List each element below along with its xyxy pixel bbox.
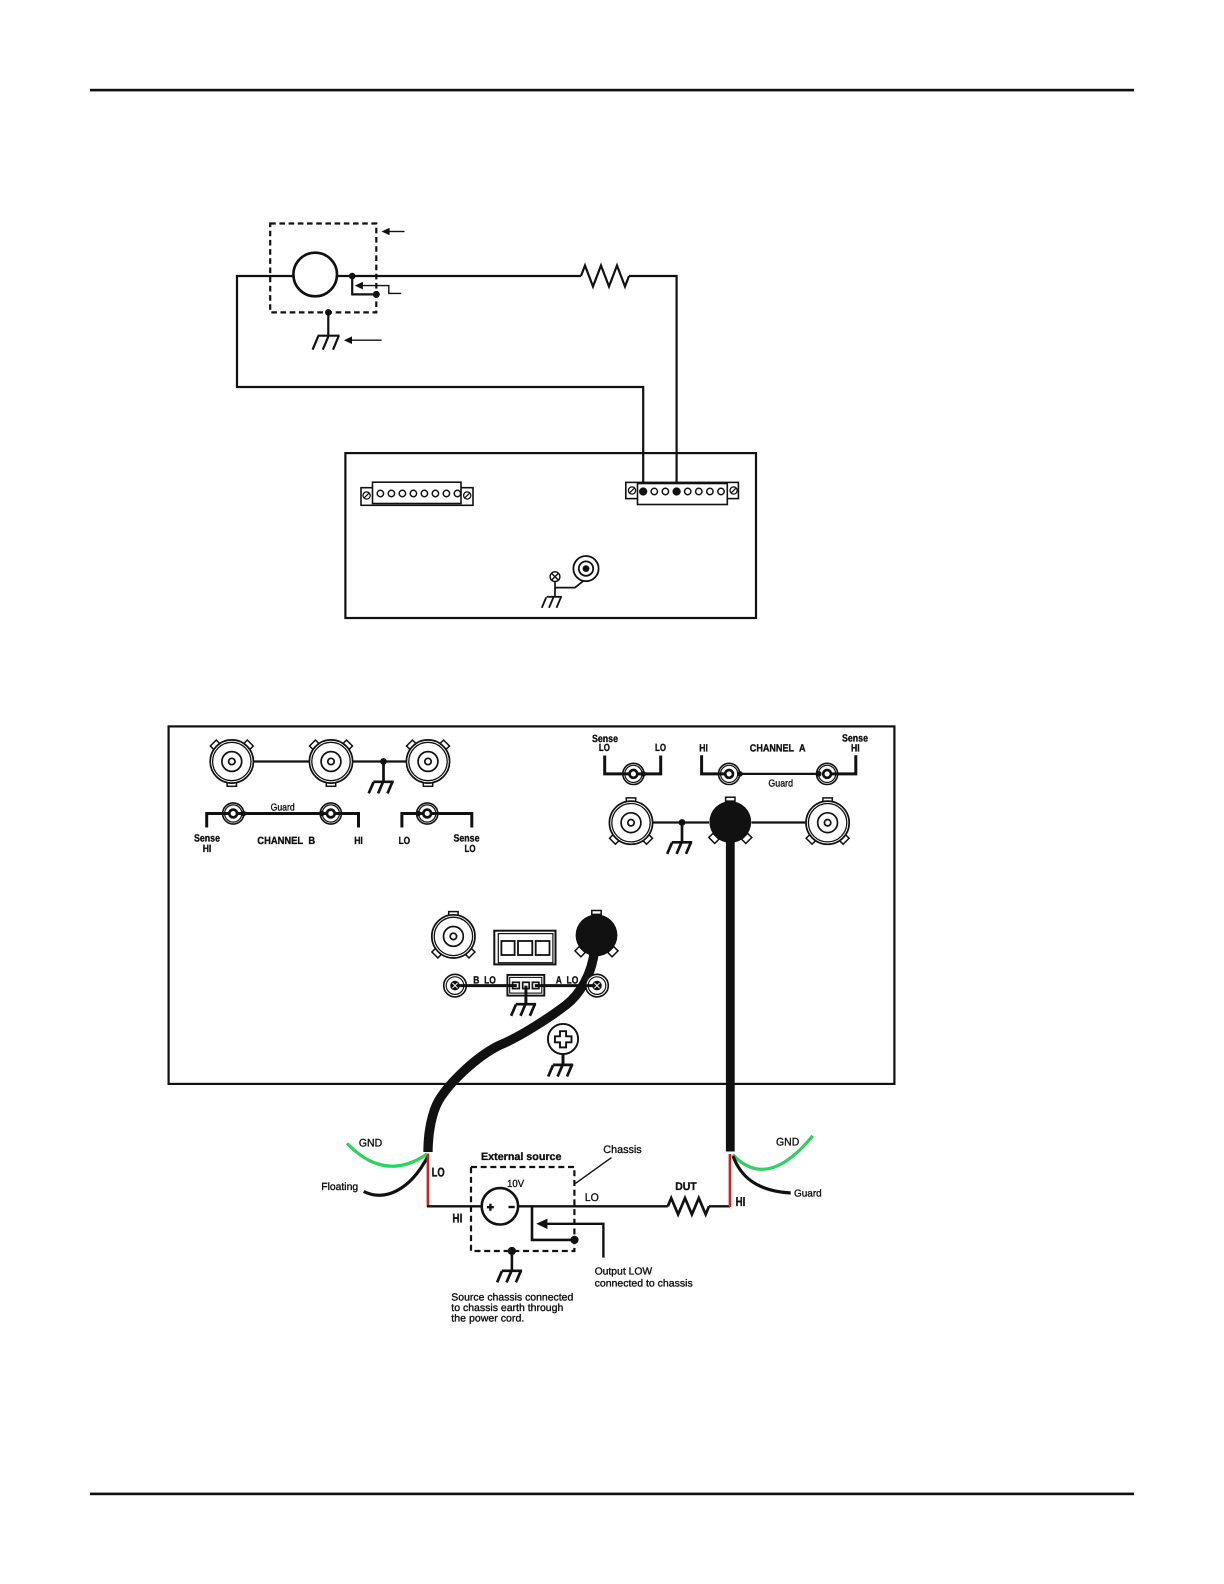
BNC B bus bar 2 xyxy=(309,740,352,786)
black BNC with cable (channel A) xyxy=(709,797,752,843)
chassis screw + xyxy=(548,1024,578,1054)
stub Sense LO xyxy=(427,814,472,828)
3-pin terminal block xyxy=(507,975,544,996)
BNC A out left xyxy=(609,798,652,844)
node guard bus left xyxy=(241,811,247,817)
svg-text:HI: HI xyxy=(354,836,363,847)
chassis screw with X xyxy=(550,572,560,582)
output low callout arrow xyxy=(536,1219,603,1258)
red HI link xyxy=(729,1154,732,1207)
BNC sense LO center xyxy=(630,770,638,778)
svg-text:LO: LO xyxy=(599,743,610,754)
3-slot connector block xyxy=(494,931,555,965)
svg-text:the power cord.: the power cord. xyxy=(451,1313,524,1324)
wire resistor to panel xyxy=(629,276,677,489)
wire B LO into block xyxy=(455,984,517,987)
svg-text:LO: LO xyxy=(432,1164,445,1179)
black BNC with cable (output) xyxy=(575,911,618,957)
jack B LO center xyxy=(451,982,459,990)
jack A LO (rings) xyxy=(586,974,609,997)
node: guard on shield xyxy=(373,291,380,298)
jack B LO (rings) xyxy=(444,974,467,997)
node on B bus xyxy=(380,758,387,765)
terminal block left: body xyxy=(373,482,462,503)
BNC middle group xyxy=(432,912,475,958)
svg-text:External source: External source xyxy=(481,1151,562,1163)
node LO left xyxy=(416,811,422,817)
node output low on chassis xyxy=(570,1236,578,1244)
green GND curve right xyxy=(733,1136,813,1170)
terminal block right: end screws xyxy=(628,487,737,494)
svg-text:connected to chassis: connected to chassis xyxy=(595,1278,693,1289)
terminal block left: holes xyxy=(377,490,460,496)
svg-text:Sense: Sense xyxy=(194,834,220,845)
node guard A left xyxy=(737,771,743,777)
svg-text:GND: GND xyxy=(776,1137,799,1149)
terminal block right: body xyxy=(638,484,728,505)
wire DUT to HI xyxy=(709,1205,730,1207)
stub Sense HI xyxy=(207,814,234,828)
node A out xyxy=(679,819,686,826)
callout arrow to guard wire (jogged leader) xyxy=(355,282,401,294)
resistor xyxy=(581,266,629,287)
DUT resistor xyxy=(668,1198,709,1214)
svg-text:LO: LO xyxy=(465,844,476,855)
BNC B bus bar 1 xyxy=(210,740,253,786)
header rule xyxy=(90,89,1134,92)
svg-text:GND: GND xyxy=(359,1138,382,1150)
svg-text:Guard: Guard xyxy=(271,803,295,814)
voltage source circle xyxy=(293,253,337,297)
wire screw to ground xyxy=(562,1054,565,1065)
callout arrow to ground xyxy=(344,336,382,344)
minus symbol xyxy=(509,1206,515,1208)
ground (chassis) B bus xyxy=(369,782,394,794)
wire right to resistor xyxy=(337,275,581,277)
wire to ground xyxy=(382,762,385,782)
svg-text:10V: 10V xyxy=(507,1179,524,1190)
stub sense LO A xyxy=(605,756,634,774)
terminal block left: end screws xyxy=(363,492,471,499)
wire mid pin to ground xyxy=(524,986,527,1005)
BNC HI channel A (rings) xyxy=(719,763,740,784)
wire to ground xyxy=(327,312,329,335)
wire source to DUT xyxy=(518,1205,668,1207)
svg-text:Chassis: Chassis xyxy=(603,1144,642,1156)
node chassis to earth xyxy=(508,1247,516,1255)
node guard A right xyxy=(816,771,822,777)
source circle 10V xyxy=(482,1188,518,1224)
ground (chassis) A/B LO xyxy=(511,1004,536,1016)
jack A LO center xyxy=(593,982,601,990)
guard shield dashed box xyxy=(270,224,376,313)
svg-text:DUT: DUT xyxy=(675,1181,697,1193)
BNC A out right xyxy=(806,798,849,844)
footer rule xyxy=(90,1493,1134,1496)
node guard bus right xyxy=(319,811,325,817)
node: shield to chassis xyxy=(325,309,332,316)
panel outline xyxy=(169,726,895,1084)
external source dashed box xyxy=(471,1167,574,1251)
svg-text:HI: HI xyxy=(699,743,708,754)
BNC centers channel B xyxy=(229,810,237,818)
black Floating curve xyxy=(364,1157,428,1195)
BNC LO channel B (rings) xyxy=(417,803,438,824)
wire BNC row B xyxy=(253,760,406,762)
panel outline xyxy=(345,453,756,618)
wire screw to jack xyxy=(555,581,583,597)
wire output low drop xyxy=(532,1206,573,1240)
wire to earth ground xyxy=(511,1251,514,1271)
green GND curve left xyxy=(347,1143,427,1166)
BNC HI center xyxy=(725,770,733,778)
black Guard curve xyxy=(733,1156,791,1193)
svg-text:CHANNEL B: CHANNEL B xyxy=(257,836,315,847)
guard wire channel A xyxy=(740,773,819,775)
terminal block left: flange xyxy=(361,488,473,506)
wire block to A LO xyxy=(535,984,597,987)
ground (chassis) A out xyxy=(667,842,692,854)
stub sense HI A xyxy=(827,755,856,774)
BNC sense LO channel A (rings) xyxy=(623,763,644,784)
svg-text:LO: LO xyxy=(655,743,666,754)
ground (chassis) below screw xyxy=(542,597,562,608)
plus symbol xyxy=(487,1204,494,1211)
ground (chassis) screw xyxy=(548,1065,573,1077)
terminal block right: holes (1 and 4 wired) xyxy=(640,488,724,495)
node sense LO A xyxy=(641,771,647,777)
svg-text:Floating: Floating xyxy=(321,1182,358,1193)
BNC HI channel B (rings) xyxy=(320,803,341,824)
terminal block right: flange xyxy=(626,482,739,498)
BNC guard right center xyxy=(823,770,831,778)
thick cable channel A (straight) xyxy=(726,840,735,1152)
wire LO to source xyxy=(427,1205,482,1207)
BNC B bus bar 3 xyxy=(406,740,449,786)
power jack (concentric) xyxy=(573,556,598,581)
svg-text:Guard: Guard xyxy=(768,778,793,789)
wire left loop xyxy=(237,276,643,489)
svg-text:Output LOW: Output LOW xyxy=(595,1267,653,1278)
wire node to ground xyxy=(681,823,684,843)
wire junction to guard dot xyxy=(352,276,376,294)
stub LO A xyxy=(633,756,660,774)
ground (earth) below source xyxy=(497,1271,522,1283)
stub HI A xyxy=(702,755,730,774)
svg-text:LO: LO xyxy=(399,836,411,847)
svg-text:Guard: Guard xyxy=(794,1188,822,1199)
thick cable output (S-curve) xyxy=(428,950,595,1152)
svg-text:CHANNEL A: CHANNEL A xyxy=(750,743,806,754)
callout arrow to shield box xyxy=(382,228,405,236)
BNC guard right channel A (rings) xyxy=(817,763,838,784)
chassis callout line xyxy=(575,1158,611,1184)
node: source output junction xyxy=(349,273,356,280)
svg-text:HI: HI xyxy=(203,844,212,855)
red LO link xyxy=(427,1154,430,1208)
wire channel A output row xyxy=(653,821,807,823)
svg-text:to chassis earth through: to chassis earth through xyxy=(451,1303,563,1314)
BNC sense HI channel B (rings) xyxy=(223,803,244,824)
svg-text:HI: HI xyxy=(736,1194,746,1209)
svg-text:HI: HI xyxy=(851,743,860,754)
stub HI xyxy=(331,814,359,828)
svg-text:HI: HI xyxy=(452,1211,462,1226)
stub LO xyxy=(402,814,427,828)
svg-text:Sense: Sense xyxy=(454,834,480,845)
svg-text:LO: LO xyxy=(585,1192,600,1204)
ground (chassis) xyxy=(313,336,340,350)
guard bus channel B xyxy=(233,812,331,815)
